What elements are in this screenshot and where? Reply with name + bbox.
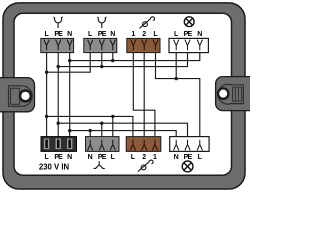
junction node on bottom PE bus at B2 PE — [100, 122, 103, 125]
junction node on bottom L bus at B2 L — [111, 115, 114, 118]
junction node on PE bus at T2 PE — [100, 65, 103, 68]
svg-text:L: L — [198, 154, 203, 161]
terminal block B2 (grey N PE L branch out) — [86, 137, 120, 152]
terminal block B1 (black 230V input L PE N) — [41, 137, 77, 152]
svg-text:N: N — [67, 154, 72, 161]
wire: N vertical from 230V-IN N up to block T1 N — [69, 48, 71, 140]
branch circuit symbol above T1 — [54, 17, 63, 28]
wire: bottom L bus from node (46.6,116.4) to B3 L — [47, 116, 133, 140]
wire: top L bus from node (46.6,72.2) to T2 L — [47, 48, 91, 72]
svg-text:L: L — [131, 154, 136, 161]
svg-text:PE: PE — [184, 31, 193, 38]
terminal block T2 (grey L PE N) — [84, 38, 117, 52]
svg-text:1: 1 — [131, 31, 135, 38]
wire: B2 N riser to bottom N bus — [89, 131, 91, 140]
svg-text:PE: PE — [54, 31, 63, 38]
svg-text:N: N — [197, 31, 202, 38]
branch circuit symbol above T2 — [97, 17, 106, 28]
svg-text:PE: PE — [98, 154, 107, 161]
svg-text:PE: PE — [184, 154, 193, 161]
svg-text:L: L — [111, 154, 116, 161]
junction node on N bus at T2 N — [111, 59, 114, 62]
switch symbol above T3 — [140, 17, 155, 28]
junction node on switched line at T4 L — [175, 77, 178, 80]
terminal block T4 (white socket L PE N lamp) — [169, 38, 208, 52]
svg-text:230 V IN: 230 V IN — [39, 162, 70, 171]
svg-text:L: L — [174, 31, 179, 38]
svg-text:N: N — [88, 154, 93, 161]
terminal block T1 (grey L PE N) — [41, 38, 74, 52]
wire: bottom PE bus from node (58.2,123.2) to B4 PE — [58, 123, 187, 140]
branch circuit symbol below B2 — [94, 161, 105, 168]
terminal block T3 (brown 1 2 L switch) — [127, 38, 160, 52]
wire: B2 PE riser to bottom PE bus — [101, 123, 103, 140]
junction node on bottom N bus at B1 column — [68, 129, 71, 132]
svg-text:1: 1 — [153, 154, 157, 161]
wire: T4 L drop to switched line node — [175, 48, 177, 79]
lamp symbol above T4 — [184, 17, 194, 27]
junction node on L bus at T1 column — [45, 71, 48, 74]
junction node on bottom PE bus at B1 column — [57, 122, 60, 125]
svg-text:L: L — [44, 31, 49, 38]
svg-text:2: 2 — [142, 154, 146, 161]
wire: T2 PE drop to PE bus — [101, 48, 103, 67]
terminal block B4 (white socket N PE L lamp) — [170, 137, 209, 152]
svg-text:PE: PE — [54, 154, 63, 161]
svg-text:L: L — [153, 31, 158, 38]
lamp symbol below B4 — [182, 161, 193, 172]
wire: PE vertical from 230V-IN PE up to block T1 PE — [57, 48, 59, 140]
wire: L vertical from 230V-IN L up to block T1 L — [46, 48, 48, 140]
junction node on PE bus at T1 column — [57, 65, 60, 68]
svg-text:2: 2 — [142, 31, 146, 38]
svg-text:N: N — [174, 154, 179, 161]
wire: switch correspondent T3 pin1 to B3 pin1 — [133, 48, 155, 140]
junction node on bottom L bus at B1 column — [45, 115, 48, 118]
wire: T2 N drop to N bus — [112, 48, 114, 61]
wire: switched line T3 L to lamp feeds — [156, 48, 200, 140]
svg-text:L: L — [88, 31, 93, 38]
wire: switch correspondent T3 pin2 to B3 pin2 — [143, 48, 145, 140]
right mounting lug — [216, 77, 257, 111]
enclosure frame — [3, 3, 245, 189]
terminal block B3 (brown L 2 1 switch) — [126, 137, 161, 152]
wire: bottom N bus from node (69.7,130.6) to B4 N — [70, 131, 177, 140]
svg-text:N: N — [67, 31, 72, 38]
svg-text:PE: PE — [98, 31, 107, 38]
wire: B2 L riser to bottom L bus — [112, 116, 114, 140]
wire: top N bus from node (69.7,60.6) to T4 N — [70, 48, 200, 61]
left mounting lug — [0, 78, 35, 112]
switch symbol below B3 — [138, 160, 153, 171]
junction node on N bus at T1 column — [68, 59, 71, 62]
wire: top PE bus from node (58.2,66.6) to T4 PE — [58, 48, 187, 67]
svg-text:N: N — [110, 31, 115, 38]
svg-text:L: L — [44, 154, 49, 161]
junction node on bottom N bus at B2 N — [89, 129, 92, 132]
